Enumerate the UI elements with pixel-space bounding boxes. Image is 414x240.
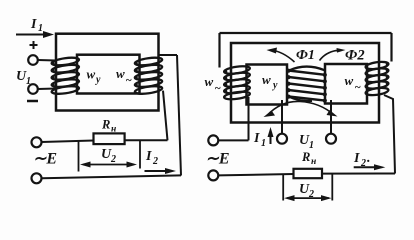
label U2 (right diagram)	[299, 182, 314, 200]
terminal circle U1 right	[326, 134, 336, 144]
core window left (flux F1 loop)	[247, 65, 288, 105]
arrow I2 (left diagram)	[145, 168, 177, 174]
svg-text:w: w	[87, 67, 96, 82]
label U1 (right diagram)	[299, 133, 314, 151]
core outer rectangle (right diagram, three-limb core)	[231, 43, 379, 123]
label wy (left diagram)	[87, 67, 102, 86]
node U2 left tick	[78, 141, 80, 172]
core window rectangle (left diagram)	[77, 55, 140, 94]
svg-text:w: w	[116, 66, 125, 81]
arrow U2 (right diagram)	[284, 195, 332, 201]
wire load right segment	[125, 139, 168, 141]
wire w~ left bottom terminal down	[248, 97, 250, 140]
node U2 right tick (right diagram)	[331, 174, 333, 201]
node U2 left tick (right diagram)	[282, 174, 284, 201]
svg-text:~: ~	[355, 82, 362, 94]
label Rn (load resistor label, left diagram)	[101, 118, 116, 135]
terminal circle ~E bottom (left diagram)	[32, 173, 42, 183]
terminal circle ~E top (right diagram)	[208, 135, 218, 145]
label U1 (left diagram)	[16, 69, 31, 87]
wire bottom right segment (corner to resistor)	[322, 173, 395, 175]
terminal circle -	[28, 84, 38, 94]
label w~ (left diagram)	[116, 66, 133, 87]
arrow flux bottom (double-headed arch under middle limb)	[264, 101, 338, 117]
svg-text:у: у	[95, 75, 101, 86]
wire right vertical (down to bottom wire)	[177, 55, 181, 176]
wire - to winding wy	[38, 88, 56, 91]
svg-text:∼E: ∼E	[33, 151, 57, 168]
wire w~ bottom down to load	[163, 91, 168, 141]
svg-text:∼E: ∼E	[206, 151, 230, 168]
svg-text:R: R	[301, 150, 310, 164]
svg-text:1: 1	[261, 138, 266, 149]
wire source E to resistor	[42, 141, 94, 143]
node U2 right tick	[139, 141, 141, 169]
wire bottom (E bottom to right vertical)	[42, 175, 181, 178]
svg-text:I: I	[30, 17, 37, 32]
wire series loop (connects both w~ windings over the top)	[220, 33, 392, 68]
wire ~E bottom to resistor (right diagram)	[219, 174, 294, 175]
svg-text:1: 1	[38, 23, 43, 34]
arrow I1	[16, 31, 54, 38]
wire ~E top to junction (right diagram)	[219, 139, 249, 141]
terminal circle +	[28, 55, 38, 65]
svg-text:~: ~	[126, 75, 133, 87]
svg-text:Ф2: Ф2	[345, 48, 365, 64]
winding wy (control winding on middle limb, right diagram)	[286, 67, 327, 103]
label I1 (right diagram)	[253, 131, 266, 149]
svg-text:w: w	[345, 73, 354, 88]
wire wy right terminal down	[330, 100, 332, 134]
winding w~ right (right limb, right diagram)	[365, 61, 389, 97]
winding wy (control winding, left limb)	[51, 56, 79, 95]
svg-text:2: 2	[110, 154, 116, 165]
terminal circle ~E bottom (right diagram)	[208, 170, 218, 180]
resistor Rn (right diagram)	[294, 169, 323, 178]
svg-text:w: w	[262, 72, 271, 87]
svg-text:2: 2	[152, 156, 158, 167]
svg-text:~: ~	[215, 83, 222, 95]
svg-text:R: R	[101, 118, 110, 132]
arrow flux F2 top	[320, 48, 346, 61]
label I2 (left diagram)	[145, 149, 158, 167]
terminal + (plus sign)	[30, 41, 38, 49]
terminal - (minus sign)	[27, 100, 38, 103]
wire + to winding wy	[38, 59, 56, 62]
svg-text:I: I	[253, 131, 260, 146]
wire w~ top to right vertical	[158, 54, 177, 56]
resistor Rn (left diagram)	[94, 133, 125, 144]
svg-text:Ф1: Ф1	[296, 48, 315, 63]
svg-text:w: w	[205, 74, 214, 89]
terminal circle U1 left	[277, 134, 287, 144]
label I1 (control current, left diagram)	[30, 17, 43, 34]
label U2 (left diagram)	[101, 147, 116, 165]
label Rn (right diagram)	[301, 150, 316, 167]
core window right (flux F2 loop)	[325, 64, 367, 104]
arrow I1 (right diagram, pointing up)	[268, 127, 274, 144]
svg-text:.: .	[367, 151, 371, 166]
arrow U2 (voltage dimension, left diagram)	[80, 162, 137, 168]
wire w~ right bottom terminal down to corner	[384, 95, 395, 174]
wire wy left terminal down	[281, 100, 283, 134]
label w~ (inner right window, right diagram)	[345, 73, 362, 94]
arrow flux F1 top	[267, 48, 295, 63]
svg-text:у: у	[272, 80, 278, 91]
svg-text:I: I	[145, 149, 152, 164]
winding w~ left (left limb, right diagram)	[224, 65, 251, 101]
core outer rectangle (left diagram)	[56, 34, 159, 111]
svg-text:н: н	[311, 157, 316, 167]
label wy (right diagram)	[262, 72, 278, 91]
winding w~ (AC winding, right limb, left diagram)	[134, 56, 162, 95]
terminal circle ~E top (left diagram)	[32, 137, 42, 147]
label w~ (outer left, right diagram)	[205, 74, 222, 95]
arrow I2 (right diagram)	[354, 164, 386, 170]
label I2 (right diagram)	[353, 151, 371, 169]
svg-text:I: I	[353, 151, 360, 166]
